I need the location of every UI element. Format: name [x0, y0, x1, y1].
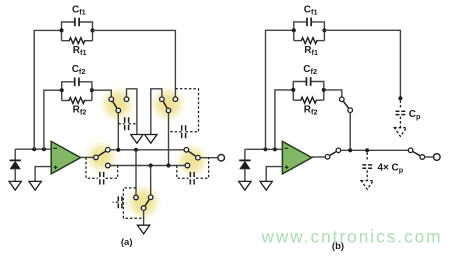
ground (b) noninverting input — [260, 181, 272, 190]
wire (b) op-amp noninverting input — [266, 167, 283, 182]
watermark www.cntronics.com — [260, 226, 442, 246]
switch S8 (b) output terminal closed — [408, 148, 424, 159]
wire (a) summing node to Cf1 network — [34, 30, 61, 149]
wire (b) summing node to Cf1 network — [266, 30, 294, 149]
node (a) RC1 left — [59, 28, 63, 32]
label Rf2 (b) — [304, 105, 318, 117]
parasitic capacitance S2 (dashed) — [169, 89, 199, 139]
svg-text:4×: 4× — [378, 162, 390, 173]
terminal (a) output — [218, 154, 225, 161]
switch S6 (b) Rf2-select closed — [340, 97, 353, 112]
op-amp U1 (a) — [51, 141, 80, 174]
capacitor Cf1 (b) — [294, 18, 325, 31]
wire (b) S8 to output terminal — [425, 156, 434, 158]
parasitic capacitance S3 (dashed) — [86, 157, 118, 184]
node (b) summing junction Cf1 tap — [263, 147, 267, 151]
label Cf1 (a) — [72, 4, 86, 16]
photodiode D1 (a) — [10, 149, 21, 181]
wire (b) RC1 to Cp node — [324, 30, 400, 98]
label (b) — [332, 241, 344, 252]
node (b) output at S6 — [348, 148, 352, 152]
label Rf2 (a) — [73, 105, 87, 117]
wire (a) S1 pole to top bus — [117, 113, 119, 150]
resistor Rf1 (a) — [62, 30, 93, 43]
ground (a) at switch S1 — [131, 135, 143, 144]
capacitor Cf1 (a) — [62, 18, 93, 31]
resistor Rf2 (a) — [62, 90, 92, 103]
switch S4 (a) output terminal side — [184, 148, 200, 168]
wire (a) RC1 to switch S2 — [93, 30, 176, 97]
wire (b) RC2 to switch S6 — [324, 90, 342, 97]
wire (a) op-amp noninverting input — [35, 167, 52, 182]
highlight switch S2 (a) — [155, 91, 181, 117]
label (a) — [121, 237, 133, 248]
wire (a) RC2 to switch S1 — [92, 90, 111, 97]
ground (b) photodiode — [239, 181, 251, 190]
wire (a) bottom bus — [110, 165, 185, 167]
wire (a) summing node to Cf2 network — [44, 90, 62, 149]
parasitic capacitance Cp (dashed) — [396, 101, 406, 128]
node (b) RC2 left — [291, 88, 295, 92]
node (b) Cp tap — [398, 96, 402, 100]
wire (a) S2 throw to ground — [151, 89, 162, 135]
wire (b) output line — [341, 149, 409, 151]
highlight switch S4 (a) — [180, 148, 204, 172]
switch S2 (a) Rf1-select — [160, 97, 178, 113]
parasitic capacitance S1 (dashed) — [118, 117, 137, 130]
switch S3 (a) output-side — [94, 148, 111, 168]
node (b) RC1 left — [292, 28, 296, 32]
ground (a) noninverting input — [29, 181, 41, 190]
wire (b) inverting-input line — [245, 148, 283, 150]
node (a) summing junction Cf2 tap — [42, 147, 46, 151]
label Rf1 (b) — [304, 45, 318, 57]
node (a) RC2 left — [60, 88, 64, 92]
wire (a) bottom bus to S5 — [150, 166, 152, 196]
resistor Rf1 (b) — [294, 30, 325, 43]
node (b) RC1 right — [322, 28, 326, 32]
capacitor Cf2 (a) — [62, 78, 92, 91]
node (a) bottom bus to S5 — [149, 163, 153, 167]
svg-text:www.cntronics.com: www.cntronics.com — [260, 226, 442, 246]
ground (b) 4xCp (dashed) — [361, 181, 373, 190]
node (a) RC2 right — [90, 88, 94, 92]
label Cf1 (b) — [304, 4, 318, 16]
switch S5 (a) ground-select — [134, 195, 153, 210]
wire (a) S5 to ground — [143, 210, 145, 225]
op-amp U2 (b) — [282, 141, 311, 174]
node (a) RC1 right — [90, 28, 94, 32]
wire (b) summing node to Cf2 network — [275, 90, 293, 149]
label Cf2 (b) — [303, 64, 317, 76]
node (a) bottom bus at S2 — [166, 163, 170, 167]
parasitic capacitance S5 (dashed) — [113, 188, 144, 218]
wire (a) S4 to output terminal — [200, 157, 218, 159]
wire (a) top bus — [110, 149, 184, 151]
resistor Rf2 (b) — [293, 90, 324, 103]
highlight switch S5 (a) — [130, 189, 156, 215]
label Cp (b) — [409, 109, 421, 121]
node (b) summing junction Cf2 tap — [273, 147, 277, 151]
terminal (b) output — [434, 154, 441, 161]
wire (a) S2 pole to bottom bus — [168, 113, 170, 166]
highlight switch S3 (a) — [89, 145, 113, 169]
wire (a) op-amp output — [81, 156, 94, 158]
switch S1 (a) Cf2-select — [109, 97, 129, 113]
highlight switch S1 (a) — [104, 91, 130, 117]
ground (a) at switch S2 — [145, 135, 157, 144]
wire (a) S1 throw to ground — [127, 89, 137, 135]
label Cf2 (a) — [72, 64, 86, 76]
wire (a) top bus to S5 — [135, 150, 137, 195]
svg-text:(a): (a) — [121, 237, 133, 248]
parasitic capacitance 4xCp (dashed) — [362, 153, 372, 181]
ground (a) at switch S5 — [137, 225, 149, 234]
label 4xCp (b) — [378, 162, 404, 174]
switch S7 (b) output-side closed — [325, 148, 341, 159]
node (b) RC2 right — [322, 88, 326, 92]
node (a) top bus to S5 — [134, 148, 138, 152]
wire (b) S6 to output line — [349, 113, 351, 151]
capacitor Cf2 (b) — [293, 77, 324, 90]
parasitic capacitance S4 (dashed) — [177, 158, 209, 185]
label Rf1 (a) — [73, 45, 87, 57]
wire (a) inverting-input line — [15, 148, 52, 150]
node (b) output 4xCp tap — [365, 148, 369, 152]
ground (a) photodiode — [9, 181, 21, 190]
node (a) summing junction Cf1 tap — [32, 147, 36, 151]
photodiode D2 (b) — [239, 149, 250, 181]
ground (b) Cp (dashed) — [394, 128, 406, 137]
node (a) top bus at S1 — [116, 148, 120, 152]
wire (b) op-amp output — [312, 156, 325, 158]
